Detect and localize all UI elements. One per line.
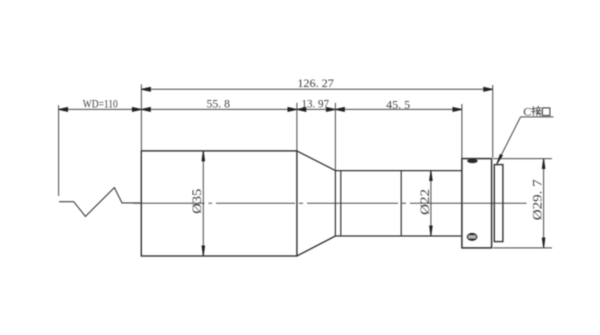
dimension line 126.27 (141, 88, 492, 90)
cone top edge (297, 151, 336, 171)
svg-text:Ø22: Ø22 (418, 189, 432, 215)
barrel Ø22 bottom edge (335, 235, 462, 237)
cone end vertical edge (334, 171, 336, 236)
cone bottom edge (297, 236, 336, 256)
svg-text:55. 8: 55. 8 (206, 97, 230, 111)
barrel ring line (340, 171, 342, 236)
barrel Ø22 top edge (335, 170, 462, 172)
centerline (133, 202, 527, 204)
extension line cone end (334, 103, 336, 171)
svg-text:126. 27: 126. 27 (297, 76, 334, 90)
arrowhead WD left (59, 107, 68, 111)
leader underline (521, 116, 554, 118)
leader arrowhead (497, 155, 503, 165)
svg-text:13. 97: 13. 97 (302, 97, 330, 111)
lens body Ø35 outline (141, 151, 297, 256)
object plane break line (zigzag) (59, 188, 141, 217)
extension line Ø29.7 bottom (493, 247, 552, 249)
mount ring Ø29.7 outline (462, 159, 492, 248)
arrowhead pair at body right (288, 107, 297, 111)
dimension line row WD/55.8/13.97/45.5 (59, 108, 462, 110)
dimension line Ø35 (202, 151, 204, 256)
arrowheads dimension 126.27 (141, 87, 150, 91)
arrowheads Ø22 (430, 171, 433, 181)
arrowhead pair at cone end (326, 107, 335, 111)
arrowheads Ø35 (202, 151, 205, 161)
dimension line Ø29.7 (543, 159, 545, 248)
extension line left WD (58, 105, 60, 196)
extension line Ø29.7 top (493, 158, 552, 160)
extension line body right (296, 103, 298, 151)
hanzi 口 (542, 108, 550, 116)
bottom set screw (467, 233, 478, 241)
arrowhead 45.5 right (453, 107, 462, 111)
dimension line Ø22 (430, 171, 432, 236)
svg-text:Ø29. 7: Ø29. 7 (531, 179, 545, 220)
hanzi 接 (532, 106, 542, 115)
leader line C-mount (497, 117, 521, 164)
svg-text:45. 5: 45. 5 (386, 97, 410, 111)
top set screw (467, 159, 478, 163)
extension line mount right (492, 85, 494, 158)
extension line body left (140, 84, 142, 151)
arrowhead pair at body left (132, 107, 141, 111)
extension line mount left (461, 104, 463, 159)
arrowheads Ø29.7 (542, 159, 545, 169)
svg-text:Ø35: Ø35 (190, 189, 204, 214)
svg-text:C: C (523, 104, 531, 118)
svg-text:WD=110: WD=110 (83, 97, 118, 111)
C-mount flange outline (494, 165, 503, 242)
barrel joint line (400, 171, 402, 236)
